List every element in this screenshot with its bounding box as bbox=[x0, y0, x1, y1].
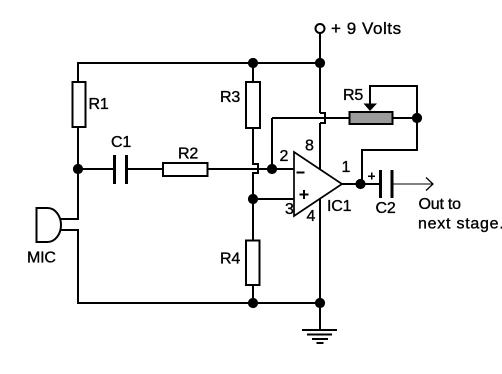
wire supply to pin 8 bbox=[319, 123, 321, 169]
wire bottom rail bbox=[77, 302, 320, 304]
svg-text:2: 2 bbox=[280, 148, 289, 165]
wire feedback horizontal to R5 bbox=[272, 117, 349, 119]
capacitor C2 bbox=[381, 170, 393, 198]
supply terminal + 9 Volts bbox=[316, 24, 325, 33]
microphone MIC body bbox=[37, 208, 62, 242]
wire R4 top lead bbox=[252, 199, 254, 241]
wire feedback riser from pin 2 node bbox=[271, 118, 273, 169]
op-amp minus sign bbox=[297, 172, 305, 174]
wire pin 4 to ground rail bbox=[319, 198, 321, 304]
svg-text:MIC: MIC bbox=[27, 250, 56, 267]
wire output arrow bbox=[394, 178, 434, 191]
node output junction bbox=[355, 179, 365, 189]
wire R1 top lead bbox=[77, 62, 79, 82]
wire top rail bbox=[77, 62, 320, 64]
ground symbol bbox=[302, 330, 337, 343]
resistor R2 bbox=[163, 163, 208, 176]
wire pin 3 node to op-amp bbox=[253, 198, 294, 200]
node ground junction bbox=[315, 298, 325, 308]
op-amp plus sign bbox=[300, 190, 309, 199]
wire mic top lead column bbox=[77, 169, 79, 219]
node R5 right junction bbox=[412, 113, 422, 123]
svg-text:R2: R2 bbox=[178, 146, 198, 163]
wire R5 wiper loop bbox=[370, 86, 417, 118]
node R4 bottom junction bbox=[248, 298, 258, 308]
resistor R4 bbox=[246, 241, 260, 286]
svg-text:C1: C1 bbox=[111, 134, 131, 151]
C2 polarity plus sign bbox=[368, 173, 375, 180]
node pin 2 junction bbox=[267, 164, 277, 174]
resistor R1 bbox=[73, 82, 86, 127]
wire R1 bottom lead bbox=[77, 127, 79, 169]
node input junction bbox=[73, 164, 83, 174]
wire R3 bottom lead with hop over signal wire bbox=[253, 128, 258, 200]
wire supply hop over feedback wire bbox=[320, 113, 325, 123]
svg-text:R3: R3 bbox=[220, 89, 240, 106]
node R3 top rail junction bbox=[248, 58, 258, 68]
wire C1 to R2 bbox=[128, 168, 163, 170]
svg-text:IC1: IC1 bbox=[327, 198, 352, 215]
wire R3 top lead bbox=[252, 62, 254, 82]
node pin 3 junction bbox=[248, 194, 258, 204]
wire mic top lead bbox=[60, 218, 79, 220]
wire ground stem bbox=[319, 303, 321, 330]
svg-text:next stage.: next stage. bbox=[418, 216, 502, 233]
svg-text:4: 4 bbox=[307, 208, 316, 225]
svg-text:3: 3 bbox=[285, 201, 294, 218]
op-amp IC1 bbox=[294, 152, 342, 216]
potentiometer R5 wiper arrow bbox=[364, 104, 378, 112]
svg-text:C2: C2 bbox=[376, 200, 396, 217]
wire R5 right lead bbox=[394, 117, 418, 119]
wire feedback return to output bbox=[362, 118, 417, 184]
svg-text:Out to: Out to bbox=[419, 196, 462, 213]
wire supply terminal to rail bbox=[319, 33, 321, 64]
wire supply rail to hop bbox=[319, 63, 321, 113]
svg-text:R5: R5 bbox=[343, 87, 363, 104]
node supply rail junction bbox=[315, 58, 325, 68]
capacitor C1 bbox=[115, 155, 127, 184]
wire R2 to pin 2 bbox=[208, 168, 295, 170]
potentiometer R5 body bbox=[350, 112, 393, 124]
wire output to C2 bbox=[342, 183, 379, 185]
svg-text:R4: R4 bbox=[220, 251, 240, 268]
svg-text:R1: R1 bbox=[89, 96, 109, 113]
wire input node to C1 bbox=[78, 168, 114, 170]
wire mic bottom column to ground rail bbox=[77, 230, 79, 304]
wire R4 bottom lead bbox=[252, 285, 254, 303]
svg-text:+ 9 Volts: + 9 Volts bbox=[331, 19, 402, 38]
wire mic bottom lead bbox=[60, 229, 79, 231]
svg-text:1: 1 bbox=[342, 159, 351, 176]
svg-text:8: 8 bbox=[305, 138, 314, 155]
resistor R3 bbox=[246, 82, 260, 128]
